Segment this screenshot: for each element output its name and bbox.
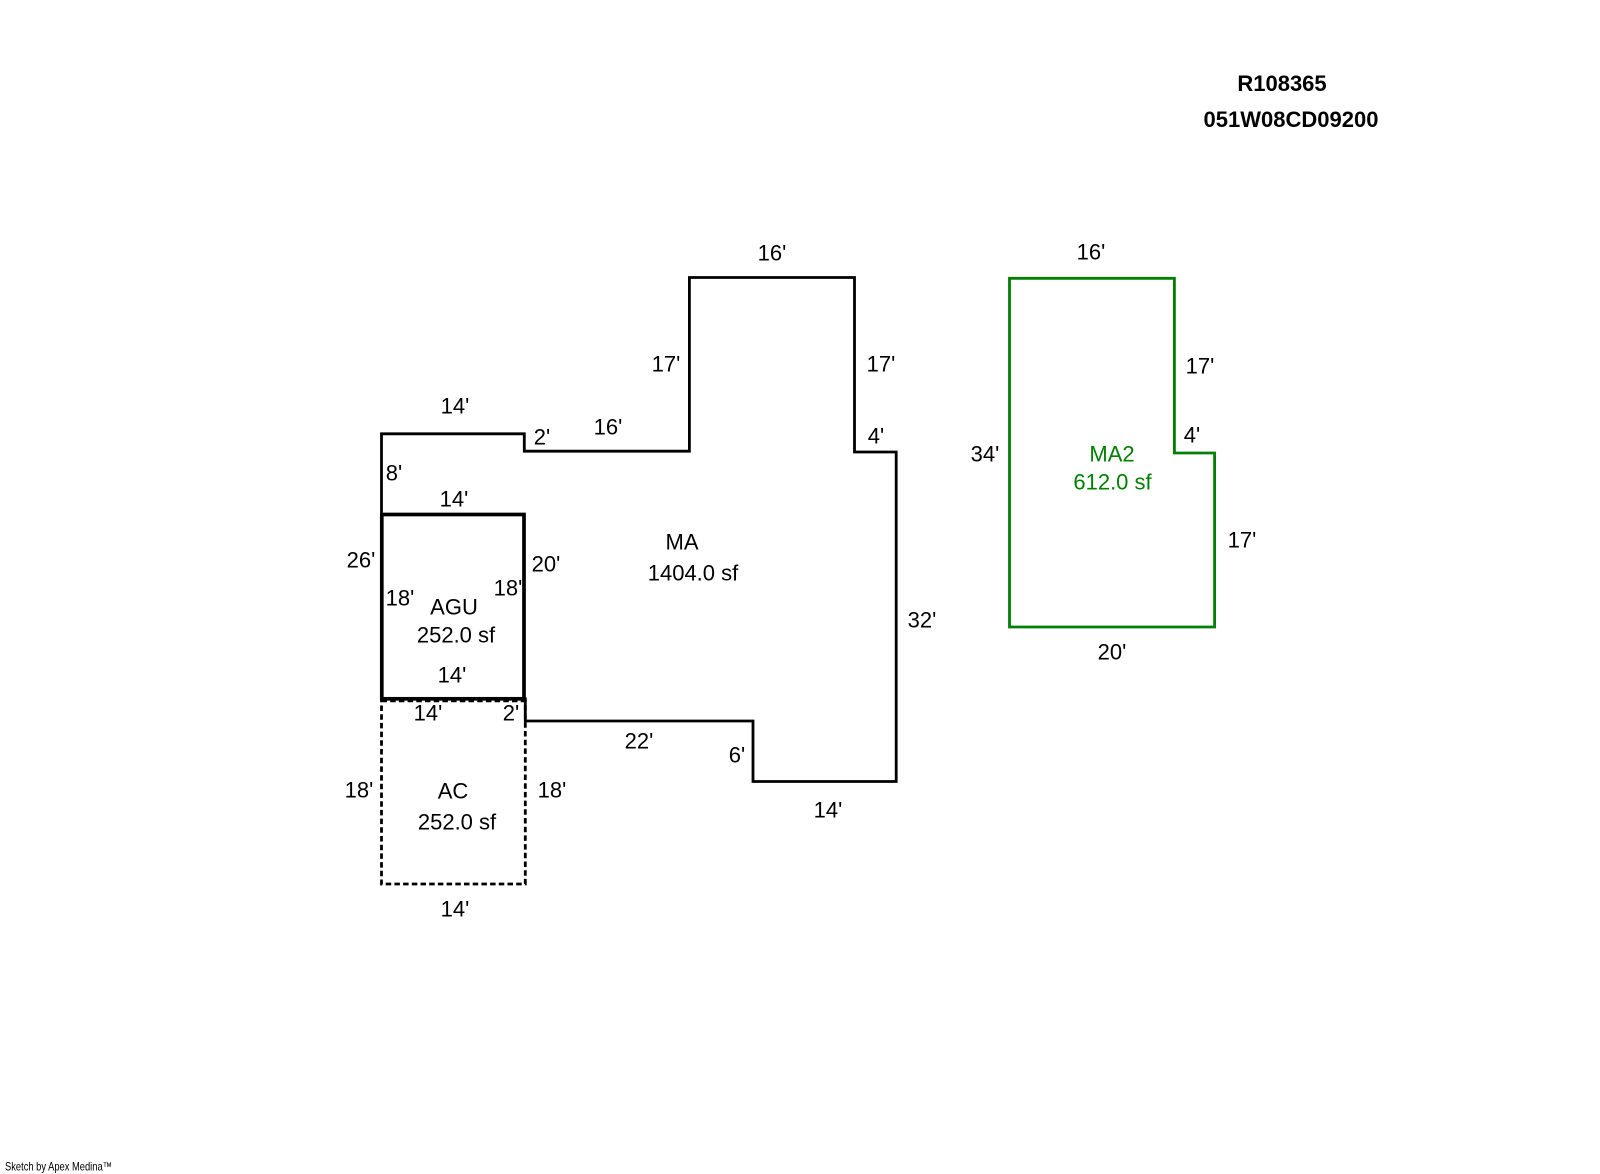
svg-text:14': 14' <box>441 394 470 419</box>
svg-text:4': 4' <box>1184 423 1200 448</box>
MA outline polygon <box>382 278 897 782</box>
svg-text:252.0 sf: 252.0 sf <box>417 623 496 648</box>
svg-text:6': 6' <box>729 743 745 768</box>
svg-text:14': 14' <box>414 701 443 726</box>
svg-text:18': 18' <box>494 576 523 601</box>
svg-text:612.0 sf: 612.0 sf <box>1073 470 1152 495</box>
svg-text:1404.0 sf: 1404.0 sf <box>648 561 739 586</box>
svg-text:14': 14' <box>438 663 467 688</box>
svg-text:Sketch by Apex Medina™: Sketch by Apex Medina™ <box>5 1160 112 1174</box>
svg-text:14': 14' <box>441 897 470 922</box>
svg-text:18': 18' <box>538 778 567 803</box>
svg-text:20': 20' <box>532 552 561 577</box>
svg-text:252.0 sf: 252.0 sf <box>418 810 497 835</box>
svg-text:8': 8' <box>386 461 402 486</box>
AGU box <box>382 515 524 699</box>
svg-text:22': 22' <box>625 729 654 754</box>
svg-text:16': 16' <box>594 415 623 440</box>
svg-text:34': 34' <box>971 442 1000 467</box>
svg-text:MA: MA <box>666 530 699 555</box>
svg-text:051W08CD09200: 051W08CD09200 <box>1204 107 1379 132</box>
svg-text:R108365: R108365 <box>1237 71 1326 96</box>
svg-text:2': 2' <box>534 425 550 450</box>
svg-text:4': 4' <box>868 424 884 449</box>
svg-text:26': 26' <box>347 548 376 573</box>
AC dashed box <box>382 701 526 884</box>
svg-text:20': 20' <box>1098 640 1127 665</box>
svg-text:AC: AC <box>438 779 469 804</box>
svg-text:17': 17' <box>652 352 681 377</box>
svg-text:18': 18' <box>386 586 415 611</box>
svg-text:17': 17' <box>1186 354 1215 379</box>
svg-text:14': 14' <box>440 487 469 512</box>
svg-text:17': 17' <box>1228 528 1257 553</box>
svg-text:17': 17' <box>867 352 896 377</box>
svg-text:18': 18' <box>345 778 374 803</box>
svg-text:16': 16' <box>758 241 787 266</box>
svg-text:16': 16' <box>1077 240 1106 265</box>
svg-text:14': 14' <box>814 798 843 823</box>
svg-text:MA2: MA2 <box>1089 442 1134 467</box>
MA2 green polygon <box>1010 278 1215 627</box>
svg-text:AGU: AGU <box>430 595 478 620</box>
svg-text:32': 32' <box>908 608 937 633</box>
svg-text:2': 2' <box>503 701 519 726</box>
